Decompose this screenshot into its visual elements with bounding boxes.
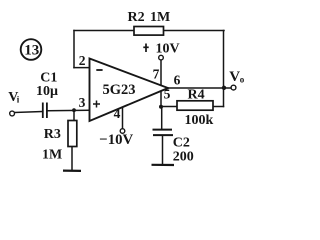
- op-amp non-inverting input plus sign: [93, 101, 100, 108]
- wire: R3 top lead: [73, 111, 75, 122]
- terminal: Vo output: [231, 85, 236, 90]
- wire: C1 to pin 3: [48, 109, 90, 112]
- svg-text:5G23: 5G23: [103, 82, 136, 98]
- wire: C2 bottom lead to ground: [162, 136, 164, 164]
- wire: pin 7 supply lead: [160, 60, 162, 85]
- svg-text:100k: 100k: [185, 113, 214, 128]
- svg-text:1M: 1M: [150, 10, 170, 25]
- svg-text:R3: R3: [44, 127, 61, 142]
- svg-text:10μ: 10μ: [36, 84, 58, 99]
- svg-text:10V: 10V: [156, 42, 180, 57]
- capacitor C1 plates: [43, 103, 47, 119]
- wire: pin 5 junction to R4 left: [161, 106, 177, 108]
- wire: feedback top horizontal: [74, 30, 224, 32]
- wire: pin 2 stub: [74, 67, 90, 69]
- wire: output from op-amp apex to Vo junction: [168, 87, 231, 89]
- resistor R4 body: [177, 101, 213, 110]
- svg-text:R4: R4: [188, 88, 205, 103]
- svg-text:200: 200: [173, 149, 194, 164]
- capacitor C2 plates: [153, 130, 174, 136]
- op-amp inverting input minus sign: [96, 69, 102, 71]
- svg-text:C2: C2: [173, 135, 190, 150]
- wire: pin 4 supply lead: [122, 108, 124, 129]
- node: input junction at pin 3: [72, 108, 76, 112]
- svg-text:o: o: [240, 74, 245, 84]
- ground (C2): [152, 164, 175, 166]
- label: +10V: [143, 44, 148, 53]
- wire: R4 right connection: [213, 106, 224, 108]
- wire: C2 top lead: [161, 107, 163, 129]
- svg-text:4: 4: [114, 106, 121, 121]
- terminal: Vi input: [10, 111, 15, 116]
- svg-text:13: 13: [24, 43, 39, 59]
- svg-text:7: 7: [153, 67, 160, 82]
- svg-text:1M: 1M: [42, 148, 62, 163]
- ground (R3): [63, 170, 81, 172]
- svg-text:5: 5: [164, 87, 171, 102]
- terminal: +10V supply: [159, 55, 164, 60]
- wire: input from Vi terminal to C1: [15, 112, 43, 113]
- svg-text:2: 2: [79, 53, 86, 68]
- terminal: -10V supply: [120, 129, 125, 134]
- svg-text:−10V: −10V: [99, 132, 133, 148]
- svg-text:R2: R2: [128, 10, 145, 25]
- op-amp U1 5G23 triangle: [90, 59, 169, 122]
- svg-text:3: 3: [79, 95, 86, 110]
- resistor R3 body: [68, 121, 77, 147]
- figure number 13 circled: [21, 39, 42, 60]
- wire: left feedback vertical to pin 2: [73, 31, 75, 68]
- svg-text:V: V: [229, 69, 240, 85]
- wire: pin 5 drop: [160, 91, 162, 107]
- wire: right vertical from top wire down to R4 level: [223, 31, 225, 107]
- svg-text:6: 6: [174, 72, 181, 87]
- node: output junction: [222, 86, 226, 90]
- node: pin 5 junction: [159, 105, 163, 109]
- wire: R3 bottom lead to ground: [71, 147, 73, 170]
- resistor R2 body: [134, 27, 164, 36]
